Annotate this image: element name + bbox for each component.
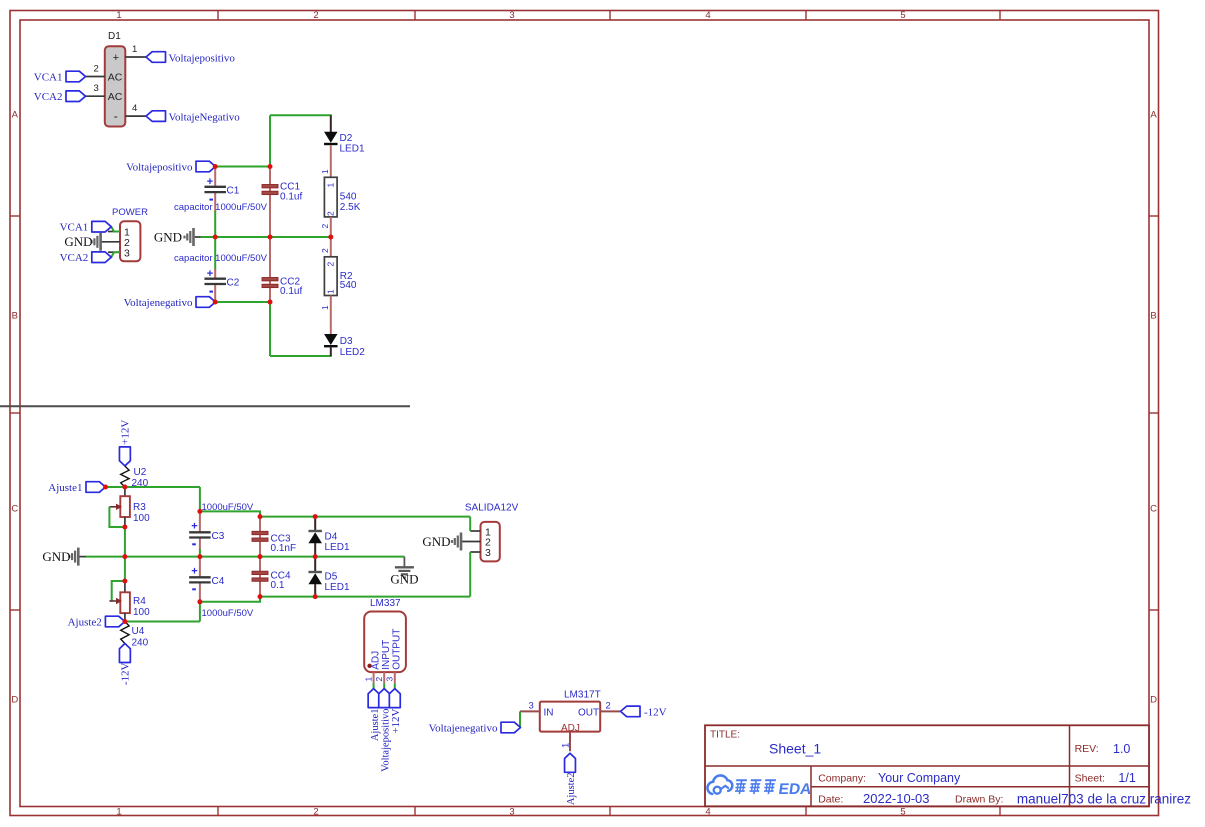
svg-text:C: C — [1150, 504, 1157, 515]
SALIDA12V pin 3 wire — [470, 551, 480, 553]
svg-text:LED1: LED1 — [340, 144, 365, 155]
svg-text:VCA1: VCA1 — [34, 71, 63, 83]
svg-text:Sheet:: Sheet: — [1075, 773, 1105, 785]
logo JLC EDA — [707, 775, 812, 798]
svg-text:2.5K: 2.5K — [340, 202, 361, 213]
svg-text:GND: GND — [64, 234, 92, 249]
svg-text:1: 1 — [320, 169, 330, 174]
POWER pin 3 wire — [108, 251, 120, 253]
wire Ajuste1 row — [106, 486, 200, 488]
svg-text:1: 1 — [132, 44, 137, 55]
svg-text:2: 2 — [313, 10, 318, 21]
svg-text:0.1uf: 0.1uf — [280, 286, 302, 297]
svg-text:U4: U4 — [132, 626, 145, 637]
capacitor CC1 0.1uf — [262, 167, 302, 238]
connector POWER — [112, 207, 148, 261]
ground GND (SALIDA12V pin 2) — [422, 533, 480, 551]
svg-text:Your Company: Your Company — [878, 771, 961, 785]
svg-text:AC: AC — [108, 91, 123, 103]
D1 pin 2 wire — [86, 64, 105, 77]
svg-text:4: 4 — [705, 10, 710, 21]
svg-text:+: + — [113, 52, 119, 64]
svg-text:-: - — [114, 109, 118, 123]
SALIDA12V pin 1 wire — [470, 530, 480, 532]
net flag VoltajeNegativo (D1 pin 4) — [146, 111, 240, 124]
svg-text:EDA: EDA — [777, 781, 812, 798]
svg-text:D4: D4 — [325, 532, 338, 543]
svg-text:1: 1 — [326, 289, 336, 294]
capacitor C4 1000uF/50V — [189, 557, 225, 602]
potentiometer R4 100 — [109, 557, 150, 622]
svg-text:Ajuste1: Ajuste1 — [370, 709, 381, 742]
svg-text:LED2: LED2 — [340, 347, 365, 358]
svg-text:D: D — [1150, 695, 1157, 706]
svg-text:IN: IN — [544, 707, 554, 718]
svg-text:2: 2 — [320, 248, 330, 253]
svg-text:Company:: Company: — [818, 772, 866, 784]
svg-text:2: 2 — [374, 677, 384, 682]
svg-text:100: 100 — [133, 607, 150, 618]
diode D5 LED1 — [308, 557, 350, 597]
ground GND (section 2) — [42, 548, 78, 566]
node Ajuste1 junctions — [103, 485, 108, 490]
svg-text:3: 3 — [509, 10, 514, 21]
net flag Ajuste2 (left) — [68, 616, 125, 628]
svg-text:Voltajenegativo: Voltajenegativo — [124, 297, 193, 309]
resistor U4 240 — [121, 622, 149, 649]
ground GND (mid, down) — [390, 557, 418, 587]
ground GND (POWER pin 2) — [64, 233, 100, 251]
svg-text:3: 3 — [509, 806, 514, 817]
svg-text:540: 540 — [340, 280, 357, 291]
capacitor CC2 0.1uf — [262, 237, 302, 302]
power flag -12V (LM317T) — [621, 706, 667, 718]
svg-text:3: 3 — [385, 677, 395, 682]
svg-text:A: A — [12, 110, 19, 121]
power flag +12V (LM337) — [389, 689, 402, 734]
svg-text:Ajuste2: Ajuste2 — [566, 773, 577, 806]
svg-text:1: 1 — [320, 305, 330, 310]
capacitor C2 1000uF/50V — [204, 237, 239, 302]
svg-text:2: 2 — [326, 211, 336, 216]
wire GND rail 2 — [80, 556, 87, 558]
svg-text:ADJ: ADJ — [371, 651, 382, 670]
svg-text:GND: GND — [422, 534, 450, 549]
svg-text:POWER: POWER — [112, 207, 148, 218]
wire VCA2 to POWER — [111, 252, 120, 257]
svg-text:C4: C4 — [212, 576, 225, 587]
net flag Voltajepositivo (D1 pin 1) — [146, 52, 235, 65]
svg-text:+: + — [207, 176, 213, 188]
svg-text:VCA1: VCA1 — [60, 222, 89, 234]
net flag VCA2 (D1 pin 3) — [34, 91, 86, 103]
D1 pin 3 wire — [86, 83, 105, 96]
POWER pin 2 wire — [101, 241, 120, 243]
svg-text:capacitor 1000uF/50V: capacitor 1000uF/50V — [174, 202, 268, 213]
svg-text:Drawn By:: Drawn By: — [955, 794, 1003, 806]
POWER pin 1 wire — [108, 231, 120, 233]
svg-text:D5: D5 — [325, 572, 338, 583]
svg-text:OUT: OUT — [578, 707, 599, 718]
connector SALIDA12V — [465, 503, 519, 562]
svg-text:1: 1 — [364, 677, 374, 682]
net flag VCA1 (D1 pin 2) — [34, 71, 86, 83]
svg-text:2: 2 — [313, 806, 318, 817]
svg-text:0.1: 0.1 — [271, 580, 285, 591]
capacitor CC3 0.1nF — [252, 517, 296, 557]
net flag Ajuste2 (LM317T) — [565, 753, 578, 805]
svg-text:Voltajepositivo: Voltajepositivo — [169, 52, 236, 64]
wire mid GND rail — [195, 236, 201, 238]
svg-text:LED1: LED1 — [325, 542, 350, 553]
svg-text:TITLE:: TITLE: — [710, 730, 740, 741]
svg-text:Ajuste1: Ajuste1 — [48, 482, 82, 494]
svg-text:540: 540 — [340, 191, 357, 202]
D1 pin 4 wire — [125, 103, 146, 116]
svg-text:Voltajepositivo: Voltajepositivo — [126, 162, 193, 174]
diode D3 LED2 — [324, 334, 365, 358]
svg-text:B: B — [1150, 311, 1156, 322]
svg-text:AC: AC — [108, 71, 123, 83]
title block — [705, 725, 1191, 806]
svg-text:manuel703 de la cruz ranirez: manuel703 de la cruz ranirez — [1017, 792, 1191, 807]
svg-text:+12V: +12V — [390, 708, 402, 733]
svg-text:5: 5 — [900, 806, 905, 817]
svg-text:Sheet_1: Sheet_1 — [769, 741, 821, 757]
LM337 pin 3 wire — [385, 672, 395, 689]
svg-text:C: C — [11, 504, 18, 515]
svg-text:240: 240 — [132, 638, 149, 649]
ground GND (filter mid rail) — [154, 228, 194, 246]
svg-text:D: D — [11, 695, 18, 706]
section divider line — [0, 405, 410, 407]
svg-text:+: + — [207, 268, 213, 280]
svg-text:2: 2 — [606, 700, 611, 711]
LM317T pin 3 wire — [520, 700, 540, 727]
svg-text:GND: GND — [154, 230, 182, 245]
node Voltajenegativo junctions — [213, 300, 218, 305]
D1 pin 1 wire — [125, 44, 146, 57]
svg-text:GND: GND — [390, 572, 418, 587]
net flag Voltajepositivo (filter) — [126, 161, 215, 173]
svg-text:R3: R3 — [133, 502, 146, 513]
wire VCA1 to POWER — [111, 227, 120, 232]
capacitor C1 1000uF/50V — [204, 167, 239, 238]
net flag Ajuste1 (LM337) — [368, 689, 381, 742]
regulator U? LM337 — [364, 598, 406, 672]
svg-text:3: 3 — [485, 547, 491, 559]
svg-text:0.1nF: 0.1nF — [271, 543, 297, 554]
wire Voltajenegativo rail — [215, 301, 270, 303]
svg-text:4: 4 — [705, 806, 710, 817]
svg-text:2: 2 — [326, 262, 336, 267]
svg-text:+12V: +12V — [120, 420, 132, 445]
svg-text:2022-10-03: 2022-10-03 — [863, 791, 930, 806]
diode D2 LED1 — [320, 115, 365, 177]
capacitor C3 1000uF/50V — [189, 511, 225, 556]
svg-text:INPUT: INPUT — [381, 640, 392, 670]
svg-text:VCA2: VCA2 — [34, 91, 63, 103]
svg-text:5: 5 — [900, 10, 905, 21]
LM317T pin 1 (ADJ) wire — [561, 732, 572, 752]
svg-text:2: 2 — [320, 224, 330, 229]
svg-text:A: A — [1150, 110, 1157, 121]
svg-text:1000uF/50V: 1000uF/50V — [202, 608, 254, 619]
svg-text:D1: D1 — [108, 31, 121, 42]
svg-text:D2: D2 — [340, 133, 353, 144]
wire top rail — [270, 114, 332, 116]
net flag Ajuste1 — [48, 482, 105, 494]
svg-text:C1: C1 — [227, 185, 240, 196]
svg-text:+: + — [191, 521, 197, 533]
wire Ajuste2 row — [125, 621, 200, 623]
svg-text:1: 1 — [561, 743, 572, 748]
svg-text:1: 1 — [116, 806, 121, 817]
svg-text:1: 1 — [326, 183, 336, 188]
svg-text:4: 4 — [132, 103, 137, 114]
resistor R1 540/2.5K — [320, 177, 361, 237]
svg-text:C3: C3 — [212, 531, 225, 542]
node GND junctions — [213, 235, 218, 240]
net flag Voltajenegativo (LM317T) — [429, 722, 521, 734]
svg-text:100: 100 — [133, 513, 150, 524]
node GND rail 2 junctions — [122, 554, 127, 559]
wire R3 to GND rail — [124, 527, 126, 557]
node bottom rail 2 junctions — [197, 599, 202, 604]
wire bottom rail 2 — [200, 597, 260, 602]
svg-text:REV:: REV: — [1075, 743, 1099, 755]
svg-text:Voltajenegativo: Voltajenegativo — [429, 723, 498, 735]
svg-text:1.0: 1.0 — [1113, 742, 1130, 756]
regulator U? LM317T — [540, 690, 601, 735]
svg-text:Ajuste2: Ajuste2 — [68, 617, 102, 629]
svg-text:U2: U2 — [134, 467, 147, 478]
svg-text:VCA2: VCA2 — [60, 252, 89, 264]
LM337 pin 2 wire — [374, 672, 384, 689]
svg-text:0.1uf: 0.1uf — [280, 191, 302, 202]
svg-text:3: 3 — [94, 83, 99, 94]
diode D4 LED1 — [308, 517, 350, 557]
LM317T pin 2 wire — [600, 700, 620, 711]
svg-text:GND: GND — [42, 549, 70, 564]
svg-text:VoltajeNegativo: VoltajeNegativo — [169, 111, 241, 123]
LM337 pin 1 wire — [364, 672, 374, 689]
capacitor CC4 0.1 — [252, 557, 291, 597]
svg-text:LM337: LM337 — [370, 598, 401, 609]
svg-text:SALIDA12V: SALIDA12V — [465, 503, 519, 514]
net flag VCA1 (POWER) — [60, 221, 112, 233]
svg-text:B: B — [12, 311, 18, 322]
svg-text:C2: C2 — [227, 278, 240, 289]
resistor R2 540 — [320, 237, 357, 334]
node top rail 2 junctions — [197, 509, 202, 514]
svg-text:2: 2 — [94, 64, 99, 75]
node R4/Ajuste2 junctions — [122, 579, 127, 584]
power flag -12V — [119, 644, 131, 686]
svg-text:LM317T: LM317T — [564, 690, 601, 701]
svg-text:+: + — [191, 566, 197, 578]
svg-text:R4: R4 — [133, 596, 146, 607]
svg-text:1/1: 1/1 — [1118, 771, 1135, 785]
svg-text:capacitor 1000uF/50V: capacitor 1000uF/50V — [174, 253, 268, 264]
net flag VCA2 (POWER) — [60, 252, 112, 264]
svg-text:OUTPUT: OUTPUT — [392, 629, 403, 670]
svg-text:1: 1 — [116, 10, 121, 21]
power flag +12V — [119, 420, 131, 466]
svg-text:D3: D3 — [340, 336, 353, 347]
node Voltajepositivo junctions — [213, 164, 218, 169]
svg-text:-12V: -12V — [644, 707, 667, 719]
svg-text:-12V: -12V — [120, 662, 132, 685]
resistor U2 240 — [121, 466, 149, 489]
wire top rail 2 — [200, 511, 260, 516]
svg-text:Date:: Date: — [818, 794, 843, 806]
wire bottom rail — [269, 302, 271, 356]
bridge rectifier D1 — [105, 31, 126, 127]
svg-text:3: 3 — [124, 247, 130, 259]
net flag Voltajenegativo (filter) — [124, 297, 216, 309]
svg-text:3: 3 — [529, 700, 534, 711]
svg-text:LED1: LED1 — [325, 582, 350, 593]
wire Voltajepositivo rail — [215, 166, 270, 168]
net flag Voltajepositivo (LM337) — [379, 689, 392, 772]
potentiometer R3 100 — [109, 487, 150, 527]
